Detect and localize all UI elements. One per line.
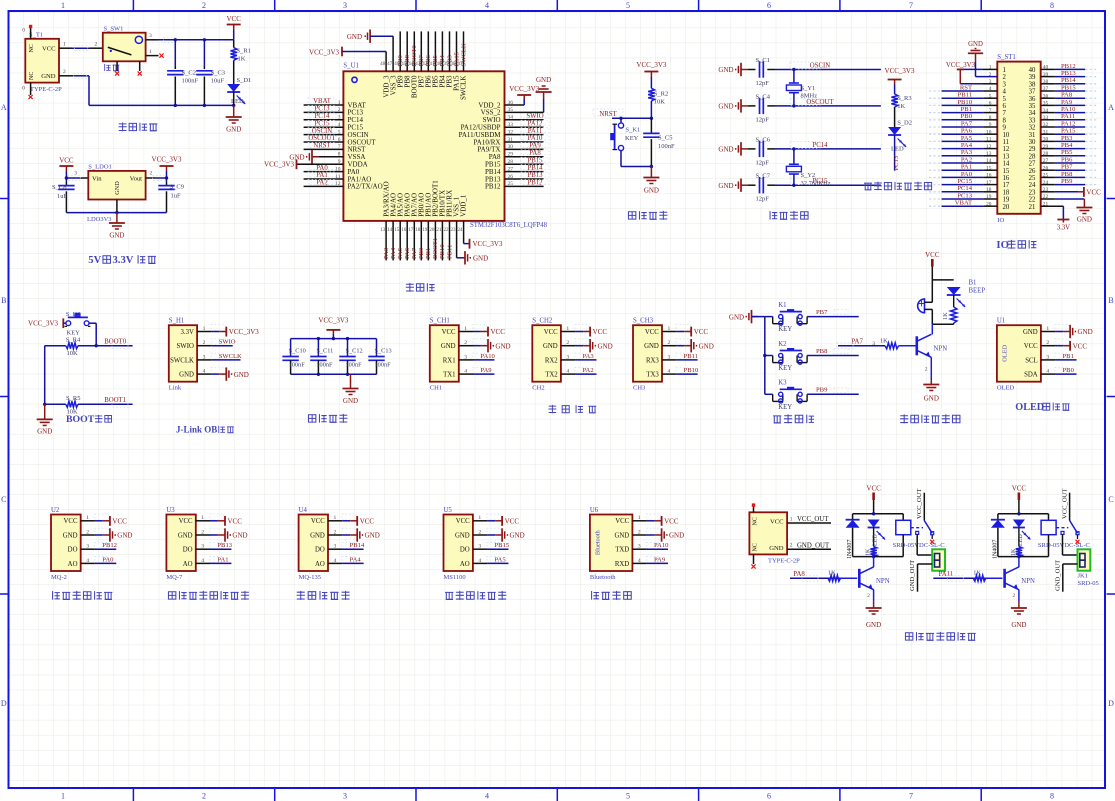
svg-text:SWIO: SWIO — [526, 113, 543, 120]
svg-text:S_C12: S_C12 — [346, 347, 363, 354]
ground GND at ST1 pin 22 — [1055, 199, 1093, 224]
power flag VCC_3V3 at chip VDDA pin 9 — [264, 159, 343, 169]
pin U5.4 PA5 — [473, 556, 509, 563]
svg-text:U1: U1 — [997, 318, 1005, 325]
ground GND power block — [226, 92, 242, 134]
svg-text:PB8: PB8 — [1061, 171, 1073, 178]
svg-text:23: 23 — [451, 228, 457, 233]
wire relay emitter to ground — [866, 590, 882, 629]
wire ST1 pin 22 stub — [1041, 198, 1055, 200]
svg-text:PB9: PB9 — [1061, 178, 1073, 185]
svg-text:PB11: PB11 — [446, 245, 453, 259]
section label BOOT-circuit — [66, 414, 111, 425]
svg-text:VCC_3V3: VCC_3V3 — [318, 317, 348, 325]
svg-text:GND: GND — [441, 343, 456, 350]
svg-text:GND: GND — [473, 255, 488, 263]
svg-text:GND: GND — [455, 532, 470, 539]
svg-text:PA3: PA3 — [583, 353, 595, 360]
svg-text:VCC: VCC — [1012, 485, 1027, 493]
svg-text:100nF: 100nF — [182, 78, 199, 85]
section label filter-circuit — [308, 414, 347, 423]
svg-text:PC15: PC15 — [314, 120, 330, 127]
capacitor S_C1 12pF — [748, 57, 775, 87]
svg-text:S_C10: S_C10 — [289, 347, 306, 354]
wire chip pin 5 net OSCIN — [304, 128, 344, 135]
svg-text:1uF: 1uF — [57, 193, 68, 200]
module U3 body — [166, 507, 204, 581]
svg-text:PA2: PA2 — [316, 180, 328, 187]
svg-text:TYPE-C-2P: TYPE-C-2P — [30, 86, 62, 93]
resistor R1 1K — [231, 40, 251, 84]
svg-text:CH3: CH3 — [633, 385, 645, 392]
svg-text:PB5: PB5 — [432, 54, 439, 66]
wire net NRST — [593, 109, 653, 120]
power flag 3.3V at ST1 pin 21 — [1041, 206, 1070, 231]
power flag VCC — [226, 15, 241, 40]
svg-text:AO: AO — [460, 561, 470, 568]
wire ST1 pin 11 net PA5 — [929, 135, 997, 142]
ground flag at chip VSS_3 pin 47 — [347, 30, 393, 72]
svg-text:31: 31 — [1029, 132, 1036, 139]
svg-text:GND: GND — [669, 532, 684, 540]
diode 1N4007 flyback — [991, 520, 1005, 559]
pin S_CH2.4 PA2 — [561, 367, 597, 374]
resistor R3 1K — [891, 94, 911, 127]
wire ST1 pin 40 net PB12 — [1041, 63, 1098, 70]
svg-text:2: 2 — [150, 171, 153, 177]
wire ST1 pin 13 net PA3 — [929, 149, 997, 156]
svg-text:C: C — [1, 495, 6, 504]
svg-text:10: 10 — [1003, 132, 1010, 139]
svg-text:TX2: TX2 — [545, 372, 558, 379]
module U2 body — [51, 507, 89, 581]
pin S_CH2.2 GND — [561, 339, 613, 353]
svg-text:1: 1 — [1003, 67, 1006, 74]
pin U3.2 GND — [196, 528, 248, 542]
svg-text:GND: GND — [117, 532, 132, 540]
wire chip bottom pin 22 net PB11 — [446, 221, 453, 261]
wire chip top pin 42 net PB6 — [425, 31, 432, 71]
section label dianyuan-dianlu — [119, 123, 158, 132]
wire chip pin 31 net PA10 — [505, 135, 550, 142]
section label smoke-module — [53, 591, 113, 600]
svg-text:S_R3: S_R3 — [897, 95, 911, 102]
pushbutton K3 KEY — [765, 380, 807, 411]
svg-text:3: 3 — [149, 33, 152, 39]
svg-text:16: 16 — [401, 228, 407, 233]
svg-text:100nF: 100nF — [658, 143, 675, 150]
svg-text:12: 12 — [1003, 146, 1010, 153]
wire chip pin 6 net OSCOUT — [304, 135, 344, 142]
svg-text:VCC: VCC — [228, 517, 243, 525]
svg-text:15: 15 — [394, 228, 400, 233]
section label formaldehyde-module — [445, 591, 506, 600]
svg-text:OSCOUT: OSCOUT — [806, 99, 834, 106]
wire relay collector — [873, 557, 875, 567]
svg-text:AO: AO — [183, 561, 193, 568]
svg-text:PA5: PA5 — [495, 556, 507, 563]
pin U6.1 VCC — [632, 514, 678, 526]
svg-text:S_ST1: S_ST1 — [997, 54, 1016, 61]
svg-text:GND: GND — [536, 76, 551, 84]
wire net PA7 to base resistor — [837, 339, 885, 349]
pin U5.2 GND — [473, 528, 525, 542]
chip left pin names and numbers — [335, 100, 383, 191]
svg-text:SWCLK: SWCLK — [460, 76, 468, 101]
svg-text:PB7: PB7 — [816, 309, 828, 316]
pin S_CH2.3 PA3 — [561, 353, 597, 360]
wire relay emitter to ground — [1011, 590, 1027, 629]
wire crystal row net OSCIN — [775, 62, 881, 70]
resistor 1K base relay — [973, 575, 1002, 581]
svg-text:GND: GND — [699, 342, 714, 350]
wire chip pin 11 net PA1 — [304, 172, 344, 179]
wire ST1 pin 8 net PB0 — [929, 113, 997, 120]
ground GND boot — [37, 404, 53, 435]
svg-text:PB3: PB3 — [1061, 135, 1073, 142]
pin U1.4 PB0 — [1041, 367, 1077, 374]
relay coil SRD-05VDC-SL-C — [1038, 520, 1091, 556]
svg-text:TX1: TX1 — [443, 372, 455, 379]
svg-text:VCC: VCC — [226, 15, 241, 23]
svg-text:8: 8 — [1050, 1, 1054, 10]
svg-text:PA1: PA1 — [316, 172, 327, 179]
pin T2 bottom stub no-connect — [751, 554, 755, 568]
svg-text:GND: GND — [866, 621, 881, 629]
wire ST1 pin 27 net PB6 — [1041, 156, 1098, 163]
section label OLED-display — [1015, 402, 1069, 413]
wire chip pin 12 net PA2 — [304, 179, 344, 186]
crystal Y1 8MHz — [786, 68, 817, 108]
svg-text:S_U1: S_U1 — [343, 63, 359, 70]
svg-text:PB0: PB0 — [961, 113, 973, 120]
svg-text:PB10: PB10 — [684, 367, 699, 374]
svg-text:PB4: PB4 — [1061, 142, 1073, 149]
power flag VCC for LDO — [59, 157, 74, 179]
module U4 body — [299, 507, 337, 581]
svg-text:S_CH2: S_CH2 — [532, 318, 553, 325]
svg-text:PA10: PA10 — [528, 135, 543, 142]
svg-text:S_K2: S_K2 — [66, 311, 81, 318]
wire crystal row net OSCOUT — [775, 98, 881, 106]
svg-text:DO: DO — [68, 547, 78, 554]
wire ST1 pin 12 net PA4 — [929, 142, 997, 149]
wire chip bottom pin 21 net PB10 — [439, 221, 446, 261]
relay switch common VCC_OUT — [916, 489, 924, 521]
svg-text:1K: 1K — [238, 56, 246, 63]
pin U2.2 GND — [81, 528, 133, 542]
svg-text:SWCLK: SWCLK — [170, 357, 194, 364]
ground flag GND keys — [729, 310, 765, 323]
svg-text:DO: DO — [460, 547, 470, 554]
wire chip pin 32 net PA11 — [505, 128, 550, 135]
capacitor S_C11 100nF — [310, 339, 333, 375]
svg-text:B: B — [1, 296, 6, 305]
svg-text:Vout: Vout — [130, 175, 143, 182]
pin S_CH2.1 VCC — [561, 325, 607, 337]
svg-text:S_R4: S_R4 — [66, 336, 81, 343]
svg-text:1K: 1K — [880, 337, 888, 344]
svg-text:PA6: PA6 — [961, 128, 973, 135]
svg-text:3: 3 — [872, 341, 875, 347]
resistor R4 10K — [45, 336, 96, 357]
wire T1 VCC pin1 to SW1 pin2 — [59, 41, 103, 50]
buzzer B1 BEEP — [918, 280, 986, 325]
svg-text:U4: U4 — [299, 507, 308, 514]
svg-text:PA2/TX/AO: PA2/TX/AO — [348, 183, 383, 191]
svg-text:PB15: PB15 — [527, 157, 543, 164]
svg-text:12pF: 12pF — [756, 159, 770, 166]
svg-text:PA9: PA9 — [654, 556, 666, 563]
wire chip pin 27 net PB14 — [505, 165, 550, 172]
diode 1N4007 flyback — [846, 520, 860, 559]
wire ST1 pin 7 net PB1 — [929, 106, 997, 113]
svg-text:PB1: PB1 — [1063, 353, 1074, 360]
capacitor S_C7 12pF — [748, 173, 775, 203]
module S_CH3 body — [633, 318, 671, 392]
svg-text:19: 19 — [422, 228, 428, 233]
wire ground rail LDO — [66, 200, 166, 215]
svg-text:11: 11 — [1003, 139, 1010, 146]
pushbutton K2 KEY — [765, 341, 807, 372]
svg-text:PA0: PA0 — [316, 165, 328, 172]
pin S_CH3.4 PB10 — [662, 367, 699, 374]
pin T1-0 bottom stub no-connect — [29, 83, 33, 100]
wire ST1 pin 20 net VBAT — [929, 200, 997, 207]
pin U4.4 PA4 — [328, 556, 364, 563]
svg-text:S_D2: S_D2 — [897, 120, 912, 127]
svg-text:OLED: OLED — [1015, 402, 1044, 413]
svg-text:S_CH3: S_CH3 — [633, 318, 654, 325]
section label CO-module — [168, 591, 249, 600]
regulator LDO1 — [87, 163, 146, 223]
power flag VCC_3V3 at ST1 pins 1 and 3 — [946, 62, 997, 84]
pin U6.2 GND — [632, 528, 684, 542]
wire chip pin 34 net SWIO — [505, 113, 550, 120]
svg-text:PC13: PC13 — [893, 155, 900, 170]
svg-text:PB9: PB9 — [816, 387, 828, 394]
svg-text:100nF: 100nF — [316, 362, 333, 369]
wire relay driver bottom rail — [998, 555, 1049, 558]
svg-text:1: 1 — [63, 41, 66, 47]
svg-text:PA11: PA11 — [1061, 113, 1075, 120]
wire ST1 pin 34 net PA10 — [1041, 106, 1098, 113]
wire chip pin 33 net PA12 — [505, 120, 550, 127]
capacitor S_C10 100nF — [282, 339, 305, 375]
transistor NPN relay driver — [1005, 567, 1035, 590]
svg-text:GND: GND — [644, 343, 659, 350]
wire chip pin 3 net PC14 — [304, 113, 344, 120]
svg-text:5: 5 — [626, 792, 630, 801]
resistor 1K relay driver — [866, 547, 877, 557]
module U6 body — [590, 507, 641, 581]
svg-text:5V: 5V — [88, 255, 101, 266]
section label relay-control-circuit — [905, 632, 975, 641]
wire ST1 pin 15 net PA1 — [929, 164, 997, 171]
pin U6.4 PA9 — [632, 556, 668, 563]
svg-text:VCC: VCC — [1024, 343, 1038, 350]
transistor NPN relay driver — [859, 567, 889, 590]
wire ST1 pin 25 net PB8 — [1041, 171, 1098, 178]
svg-text:4: 4 — [485, 792, 489, 801]
relay switch blade and contacts — [1056, 521, 1079, 544]
svg-text:33: 33 — [1029, 117, 1036, 124]
module S_CH1 body — [430, 318, 468, 392]
wire ST1 pin 19 net PC13 — [929, 192, 997, 199]
wire chip top pin 45 net PB8 — [404, 31, 411, 71]
svg-text:PA3: PA3 — [961, 149, 973, 156]
switch SW1 — [103, 26, 146, 72]
svg-text:4: 4 — [485, 1, 489, 10]
port VCC_OUT from T2 pin1 — [787, 516, 831, 523]
svg-text:VCC: VCC — [645, 329, 659, 336]
svg-text:GND: GND — [718, 146, 733, 154]
svg-text:S_C11: S_C11 — [316, 347, 333, 354]
svg-text:SWIO: SWIO — [219, 339, 236, 346]
svg-text:PB12: PB12 — [485, 183, 501, 191]
svg-text:VCC: VCC — [544, 329, 558, 336]
svg-text:Link: Link — [169, 385, 182, 392]
svg-text:PA7: PA7 — [411, 247, 418, 259]
wire chip bottom pin 15 net PA5 — [397, 221, 404, 261]
svg-text:VCC: VCC — [615, 518, 629, 525]
svg-text:VCC_3V3: VCC_3V3 — [946, 62, 976, 69]
svg-text:26: 26 — [1029, 168, 1036, 175]
svg-text:S_C1: S_C1 — [756, 57, 770, 64]
svg-text:S_Y2: S_Y2 — [801, 172, 816, 179]
wire chip top pin 38 net PA15 — [453, 31, 460, 71]
ground flag at chip VSS_1 pin 23 — [457, 221, 489, 265]
relay switch common VCC_OUT — [1061, 489, 1069, 521]
microcontroller U1 STM32F103C8T6 body — [343, 63, 547, 230]
svg-text:GND: GND — [769, 545, 784, 552]
svg-text:S_R2: S_R2 — [654, 91, 668, 98]
svg-text:24: 24 — [1029, 182, 1036, 189]
svg-text:PB3: PB3 — [446, 54, 453, 66]
svg-text:PA4: PA4 — [350, 556, 362, 563]
svg-text:1: 1 — [61, 1, 65, 10]
terminal block green — [932, 549, 945, 570]
svg-text:22: 22 — [1029, 197, 1036, 204]
svg-text:AO: AO — [68, 561, 78, 568]
svg-text:NC: NC — [753, 517, 759, 525]
svg-text:PA9: PA9 — [529, 143, 541, 150]
pin U6.3 PA10 — [632, 542, 669, 549]
svg-text:PA15: PA15 — [1061, 128, 1076, 135]
svg-text:17: 17 — [1003, 182, 1010, 189]
svg-text:4: 4 — [1003, 89, 1007, 96]
svg-text:PB14: PB14 — [350, 542, 365, 549]
svg-text:S_R1: S_R1 — [237, 48, 251, 55]
wire chip top pin 40 net PB4 — [439, 31, 446, 71]
wire ST1 pin 24 net PB9 — [1041, 178, 1098, 185]
svg-text:S_Y1: S_Y1 — [801, 85, 816, 92]
power flag VCC_3V3 at LDO output — [152, 156, 182, 179]
svg-text:36: 36 — [1029, 96, 1036, 103]
pin U1.2 VCC — [1041, 339, 1087, 351]
svg-text:J-Link OB: J-Link OB — [176, 425, 217, 435]
power flag VCC relay driver — [1012, 485, 1027, 514]
connector T1 TYPE-C-2P — [22, 28, 62, 94]
svg-text:IO: IO — [997, 217, 1004, 224]
section label alarm-circuit — [900, 414, 960, 423]
wire ST1 pin 9 net PA7 — [929, 120, 997, 127]
svg-text:PA15: PA15 — [453, 51, 460, 66]
svg-text:VCC_OUT: VCC_OUT — [916, 489, 923, 519]
svg-text:B1: B1 — [969, 280, 977, 287]
svg-text:18: 18 — [1003, 189, 1010, 196]
svg-text:1K: 1K — [897, 103, 905, 110]
svg-text:18: 18 — [415, 228, 421, 233]
svg-text:TX3: TX3 — [646, 372, 659, 379]
svg-text:VCC: VCC — [64, 518, 78, 525]
svg-text:OSCIN: OSCIN — [312, 128, 332, 135]
svg-text:VCC_OUT: VCC_OUT — [1061, 489, 1068, 519]
svg-text:S_C2: S_C2 — [182, 70, 196, 77]
svg-text:NPN: NPN — [876, 578, 890, 585]
svg-text:U5: U5 — [444, 507, 453, 514]
module U5 body — [444, 507, 482, 581]
wire chip pin 10 net PA0 — [304, 165, 344, 172]
wire LED to net PC13 — [893, 135, 900, 171]
wire ST1 pin 30 net PB3 — [1041, 135, 1098, 142]
svg-text:JK1: JK1 — [1078, 573, 1088, 580]
svg-text:PA4: PA4 — [961, 142, 973, 149]
svg-text:24: 24 — [458, 228, 464, 233]
wire GND_OUT from terminal — [1054, 560, 1077, 592]
svg-text:10K: 10K — [67, 350, 79, 357]
svg-text:30: 30 — [1029, 139, 1036, 146]
svg-text:KEY: KEY — [625, 135, 639, 142]
svg-text:VDD_1: VDD_1 — [460, 194, 468, 217]
svg-text:PA8: PA8 — [1061, 92, 1073, 99]
svg-text:3.3V: 3.3V — [1057, 225, 1070, 232]
svg-text:PA4: PA4 — [390, 247, 397, 259]
svg-text:K3: K3 — [778, 380, 787, 387]
chip bottom pin names and numbers — [380, 180, 468, 233]
section label 5V-to-3.3V — [88, 255, 156, 266]
svg-text:GND: GND — [718, 66, 733, 74]
wire filter bottom rail — [291, 373, 377, 376]
svg-text:D: D — [1, 699, 7, 708]
section label serial-circuit — [548, 405, 596, 413]
svg-text:GND: GND — [234, 371, 249, 379]
svg-text:40: 40 — [1029, 67, 1036, 74]
wire ST1 pin 37 net PB15 — [1041, 84, 1098, 91]
wire chip bottom pin 14 net PA4 — [390, 221, 397, 261]
wire net PA11 to base resistor — [933, 570, 990, 582]
pin S_H1.1 VCC_3V3 — [197, 325, 259, 337]
svg-text:PB1: PB1 — [425, 248, 432, 259]
svg-text:PB11: PB11 — [958, 92, 972, 99]
svg-text:PA0: PA0 — [102, 556, 114, 563]
svg-text:VCC: VCC — [925, 251, 940, 259]
wire alarm bottom node — [932, 324, 953, 334]
svg-text:S_C6: S_C6 — [756, 136, 771, 143]
power flag VCC_3V3 at chip VDD_3 pin 48 — [309, 47, 386, 72]
resistor 1K relay driver — [1011, 547, 1022, 557]
svg-text:17: 17 — [408, 228, 414, 233]
wire LDO Vout to VCC_3V3 — [146, 171, 167, 181]
pin S_H1.4 GND — [197, 367, 249, 381]
wire alarm top node — [932, 280, 953, 302]
svg-text:PB12: PB12 — [527, 180, 543, 187]
pin S_CH1.2 GND — [459, 339, 511, 353]
svg-text:23: 23 — [1029, 189, 1036, 196]
svg-text:S_C5: S_C5 — [658, 135, 672, 142]
pin S_H1.2 SWIO — [197, 339, 236, 346]
section label program-run-indicator — [864, 182, 932, 191]
